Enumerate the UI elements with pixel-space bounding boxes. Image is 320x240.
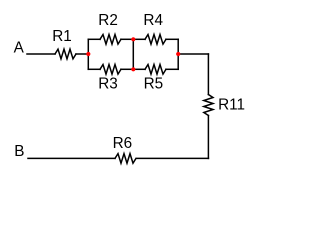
wire R5 to right vertical <box>166 68 178 70</box>
svg-text:R5: R5 <box>144 75 164 92</box>
svg-text:R3: R3 <box>98 75 118 92</box>
resistor R6 <box>115 154 136 164</box>
svg-text:B: B <box>14 143 24 160</box>
svg-text:R1: R1 <box>52 28 72 45</box>
resistor R1 <box>55 49 76 59</box>
wire R3 to mid vertical <box>121 68 133 70</box>
junction node right <box>176 52 180 56</box>
wire node to right corner <box>178 53 208 55</box>
wire R2 to mid vertical <box>121 38 133 40</box>
wire down to R11 <box>207 54 209 95</box>
wire mid to R4 lead <box>133 38 145 40</box>
resistor R11 <box>204 95 213 116</box>
resistor R2 <box>100 35 121 45</box>
svg-text:R4: R4 <box>143 12 163 29</box>
wire R1 to node <box>76 53 88 55</box>
wire A lead left <box>27 53 55 55</box>
wire B lead left <box>28 157 115 159</box>
wire R6 to bottom corner <box>137 157 208 159</box>
wire top-left lead <box>88 38 100 40</box>
wire middle vertical <box>132 39 134 69</box>
wire mid to R5 lead <box>133 68 145 70</box>
resistor R3 <box>100 65 121 75</box>
wire left vertical of parallel box <box>87 39 89 69</box>
wire right vertical of parallel box <box>177 39 179 69</box>
resistor R4 <box>145 35 166 45</box>
wire bottom-left lead <box>88 68 100 70</box>
junction node bottom middle <box>131 67 135 71</box>
svg-text:R6: R6 <box>113 135 133 152</box>
wire R11 to bottom corner <box>207 116 209 159</box>
svg-text:R2: R2 <box>98 12 118 29</box>
junction node top middle <box>131 37 135 41</box>
wire R4 to right vertical <box>166 38 178 40</box>
junction node after R1 <box>86 52 90 56</box>
svg-text:A: A <box>14 39 25 56</box>
svg-text:R11: R11 <box>218 96 245 113</box>
resistor R5 <box>145 65 166 75</box>
